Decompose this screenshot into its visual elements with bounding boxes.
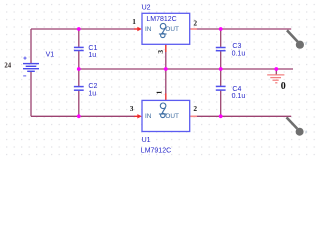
svg-text:1u: 1u xyxy=(88,90,96,97)
junction node top C3 xyxy=(219,27,223,31)
wire C2 bottom lead xyxy=(78,91,80,117)
pin 3 stub U2 common xyxy=(165,44,167,52)
battery plus mark xyxy=(23,57,26,60)
wire C4 bottom lead xyxy=(220,91,222,117)
pin 3 stub arrow into U1 IN xyxy=(134,114,142,118)
ground symbol xyxy=(267,75,284,83)
svg-text:U1: U1 xyxy=(142,137,151,144)
junction node mid C1/C2 xyxy=(77,67,81,71)
svg-text:1u: 1u xyxy=(88,52,96,59)
svg-text:LM7912C: LM7912C xyxy=(141,147,171,154)
junction node mid regulator common xyxy=(164,67,168,71)
svg-text:OUT: OUT xyxy=(165,113,179,120)
wire top rail from battery to U2 IN xyxy=(31,28,135,30)
capacitor C1 xyxy=(74,47,84,50)
svg-text:2: 2 xyxy=(193,104,197,113)
wire C1 top lead xyxy=(78,29,80,47)
svg-text:V1: V1 xyxy=(46,52,55,59)
svg-text:1: 1 xyxy=(154,90,163,94)
junction node mid C3/C4 xyxy=(219,67,223,71)
pin 1 stub arrow into U2 IN xyxy=(134,27,142,31)
U2 internal reference symbol xyxy=(159,23,167,37)
svg-text:LM7812C: LM7812C xyxy=(146,16,176,23)
battery V1 xyxy=(23,64,39,72)
svg-text:C2: C2 xyxy=(88,83,97,90)
capacitor C2 xyxy=(74,87,84,91)
wire C3 bottom lead xyxy=(220,51,222,69)
svg-text:C3: C3 xyxy=(232,43,241,50)
svg-text:U2: U2 xyxy=(142,5,151,12)
regulator U1 box xyxy=(142,100,190,131)
svg-text:24: 24 xyxy=(4,62,11,69)
regulator U2 box xyxy=(142,13,190,44)
svg-text:0: 0 xyxy=(281,81,286,92)
wire bottom rail to U1 IN xyxy=(31,115,135,117)
wire middle rail xyxy=(79,68,293,70)
wire battery bottom to bottom rail xyxy=(30,71,32,116)
junction node top C1 xyxy=(77,27,81,31)
svg-text:OUT: OUT xyxy=(165,26,179,33)
wire ground stem xyxy=(275,69,277,75)
svg-text:IN: IN xyxy=(145,113,152,120)
svg-text:3: 3 xyxy=(156,50,165,54)
svg-text:2: 2 xyxy=(193,19,197,28)
wire U1 OUT rail xyxy=(197,115,292,117)
svg-text:C4: C4 xyxy=(232,86,241,93)
wire left vertical battery top xyxy=(30,29,32,63)
battery minus mark xyxy=(23,75,26,77)
probe bottom output xyxy=(287,117,308,135)
svg-text:IN: IN xyxy=(145,26,152,33)
wire U2 OUT rail xyxy=(197,28,292,30)
wire C1 bottom lead xyxy=(78,51,80,69)
wire U2 common to U1 common vertical xyxy=(165,52,167,94)
pin 2 stub U1 OUT xyxy=(190,115,197,117)
wire C4 top lead xyxy=(220,69,222,86)
capacitor C3 xyxy=(216,48,226,51)
svg-text:0.1u: 0.1u xyxy=(232,93,246,100)
U1 internal reference symbol xyxy=(159,103,167,118)
svg-text:0.1u: 0.1u xyxy=(232,51,246,58)
pin 2 stub U2 OUT xyxy=(190,28,197,30)
junction node bottom C2 xyxy=(77,114,81,118)
wire C3 top lead xyxy=(220,29,222,47)
wire C2 top lead xyxy=(78,69,80,86)
pin 1 stub U1 common xyxy=(165,93,167,100)
junction node bottom C4 xyxy=(219,114,223,118)
svg-text:3: 3 xyxy=(130,104,134,113)
svg-text:1: 1 xyxy=(132,17,136,26)
junction node mid ground xyxy=(274,67,278,71)
capacitor C4 xyxy=(216,86,226,90)
probe top output xyxy=(287,30,308,49)
